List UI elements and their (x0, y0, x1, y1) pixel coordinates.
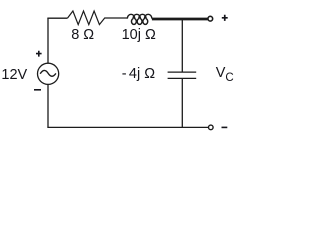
svg-text:8 Ω: 8 Ω (71, 27, 94, 43)
svg-text:10j Ω: 10j Ω (122, 27, 156, 43)
svg-text:-: - (122, 66, 127, 82)
svg-text:C: C (225, 72, 233, 84)
svg-text:4j Ω: 4j Ω (129, 66, 155, 82)
svg-text:V: V (216, 65, 226, 81)
svg-text:12V: 12V (1, 67, 27, 83)
